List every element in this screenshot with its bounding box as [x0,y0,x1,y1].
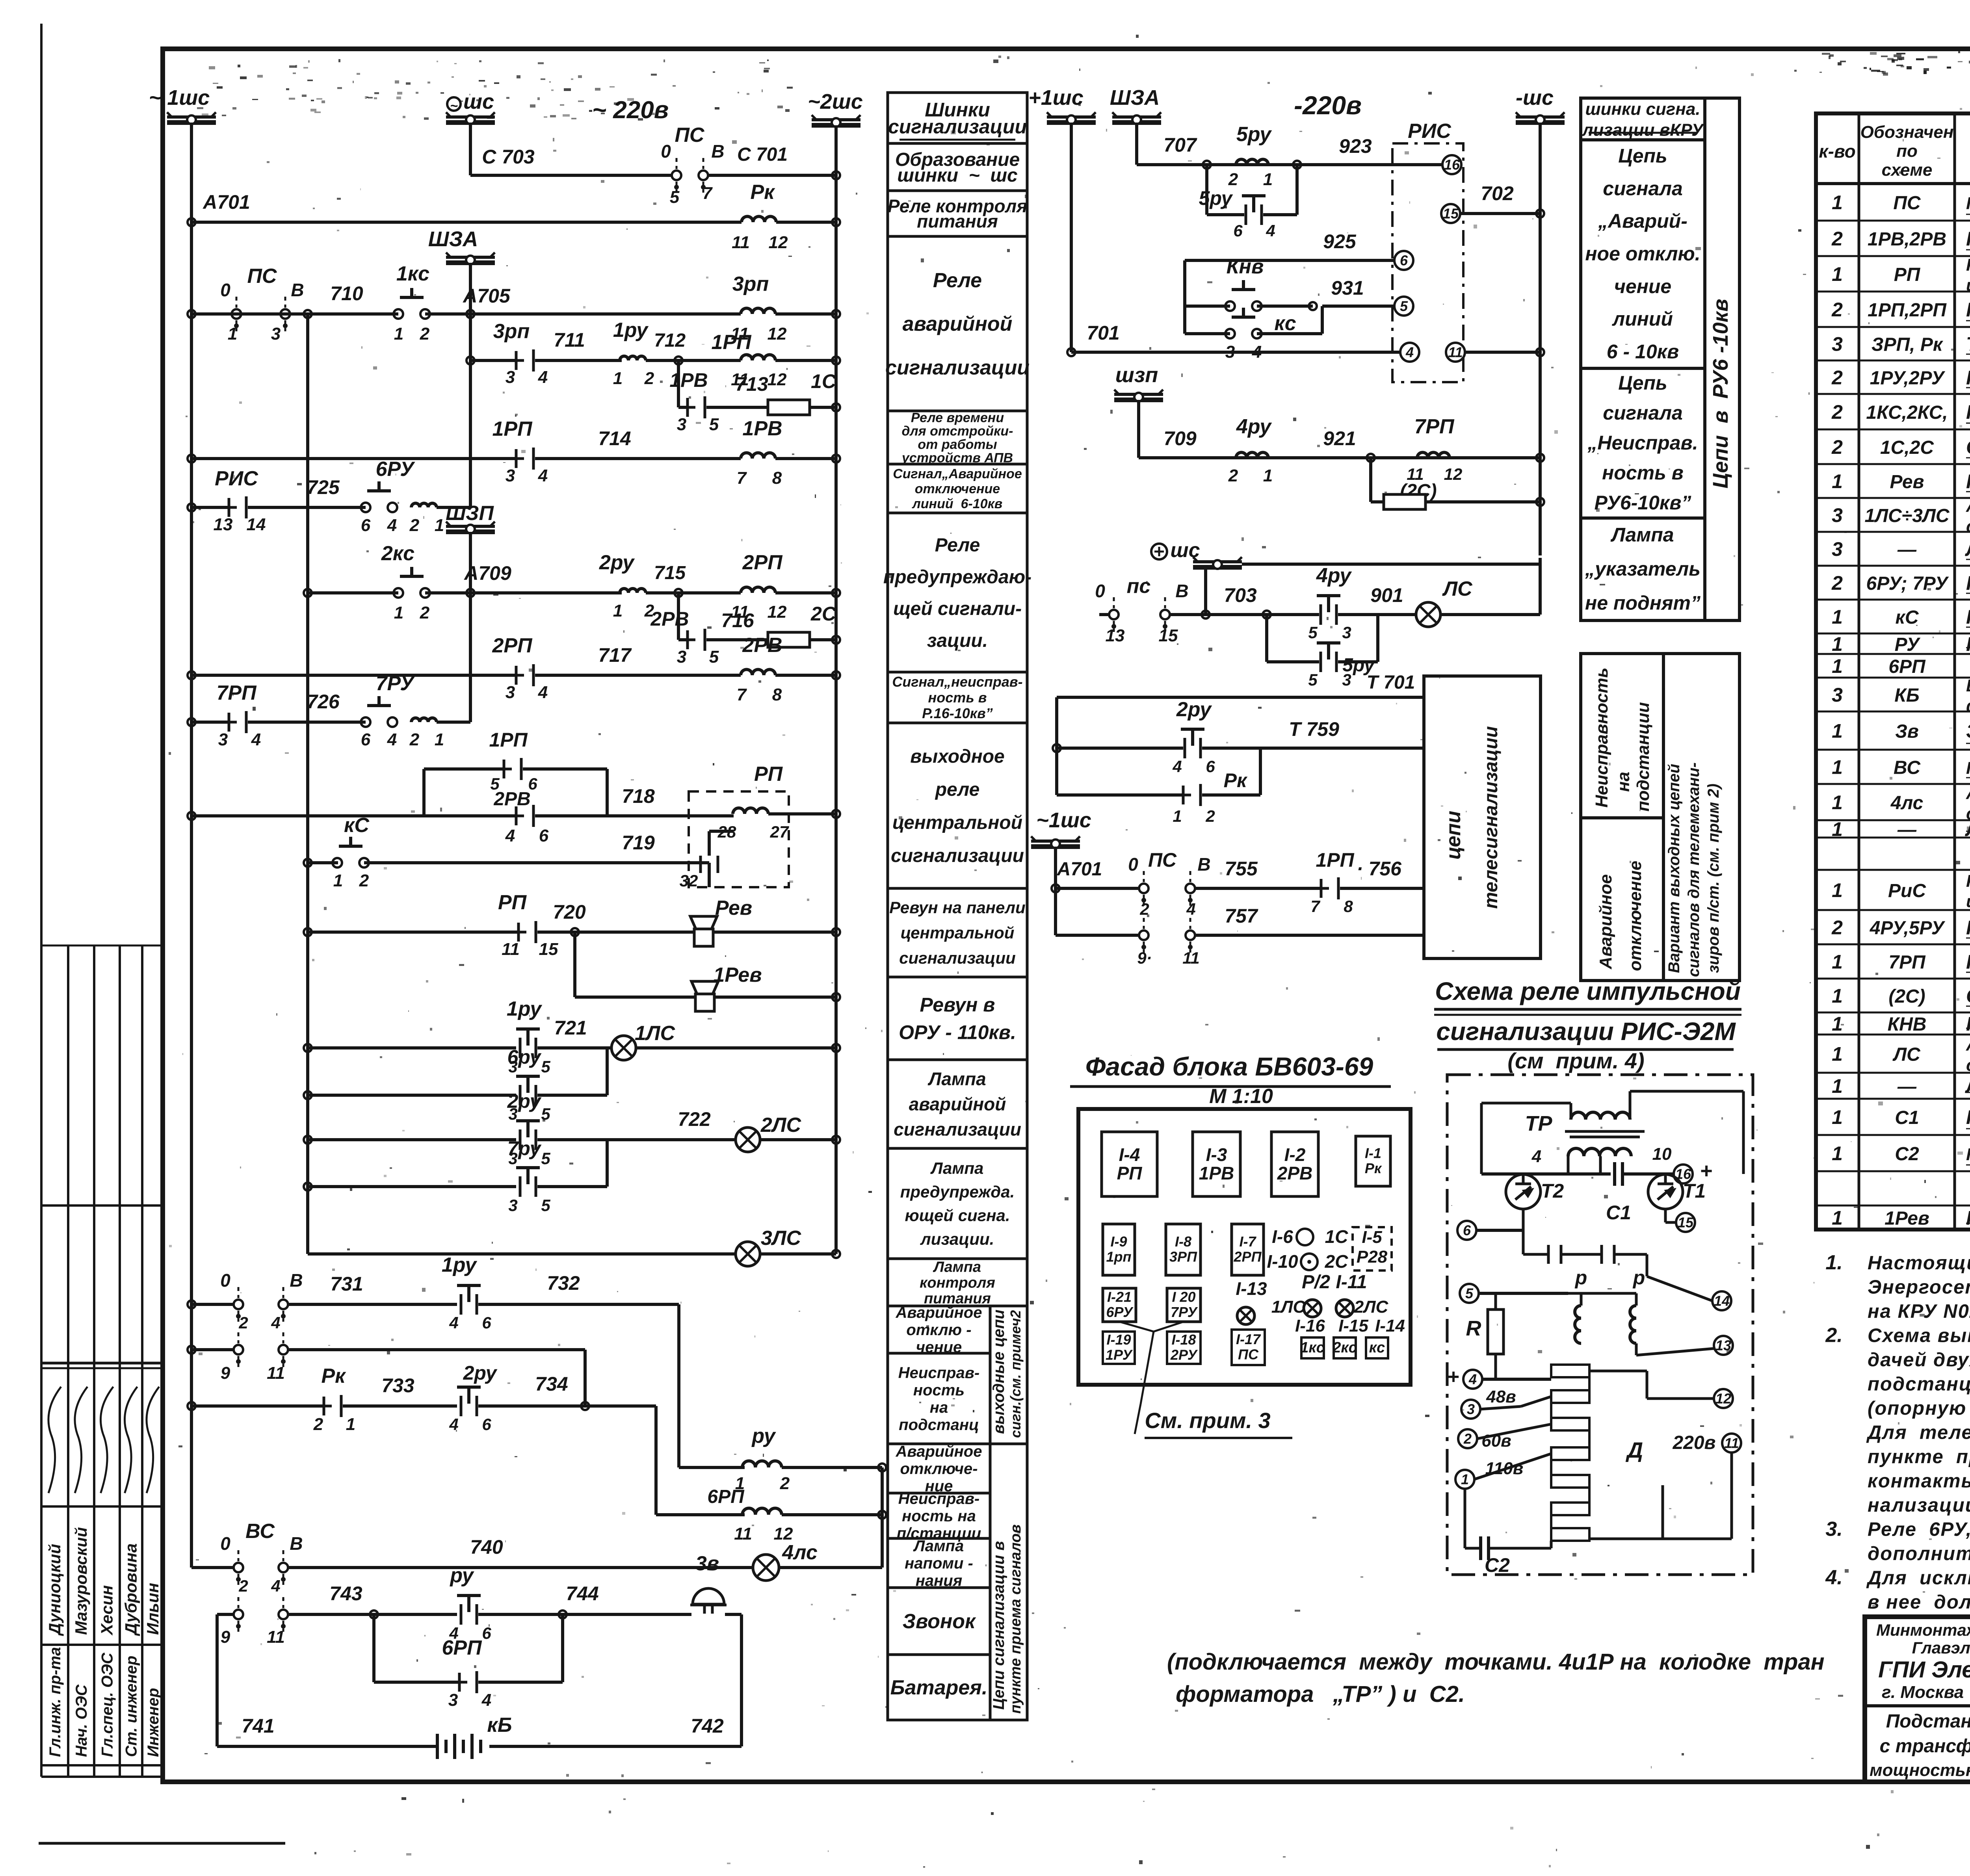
relay РП dashed box [689,791,789,887]
wire A701 [188,218,195,226]
switch ВС contacts row 9-11 [217,1613,234,1616]
svg-text:линий 6-10кв: линий 6-10кв [912,496,1003,511]
bus ~шс with circle [446,120,495,125]
svg-text:925: 925 [1323,230,1357,253]
svg-text:Для телемеханизированных под: Для телемеханизированных подстанций шкаф… [1866,1422,1970,1443]
signature scrawl [147,1387,159,1493]
svg-text:732: 732 [547,1272,580,1294]
svg-text:телесигнализации: телесигнализации [1481,726,1502,909]
svg-text:6: 6 [1463,1222,1471,1239]
svg-text:С 701: С 701 [737,144,788,165]
table row 1ЛС÷3ЛС 1264 [1816,531,1970,533]
svg-text:7РУ: 7РУ [1171,1304,1198,1320]
panel unit I-20 [1167,1288,1201,1322]
svg-text:ПС: ПС [1893,193,1921,214]
contact РИС 13-14 [228,498,230,517]
svg-text:1: 1 [1832,606,1843,628]
svg-text:0: 0 [220,280,230,300]
svg-text:Ст. инженер: Ст. инженер [123,1656,140,1757]
switch ПС contacts row 9-11 [188,1346,195,1354]
svg-text:1: 1 [1832,191,1843,214]
svg-text:Схема выполнена для нетелемеха: Схема выполнена для нетелемеханизированн… [1868,1325,1970,1347]
panel unit I-18 [1167,1332,1201,1364]
svg-text:(опорную подстанцию).: (опорную подстанцию). [1868,1398,1970,1419]
svg-text:2ру: 2ру [599,551,635,574]
svg-text:(подключается между точками.: (подключается между точками. 4и1Р на кол… [1167,1649,1825,1675]
svg-text:1: 1 [1832,1207,1843,1229]
svg-text:Неисправ-: Неисправ- [898,1490,979,1508]
svg-text:1рп: 1рп [1106,1249,1131,1265]
table row 4лс 1990 [1816,819,1970,821]
table row 6РП 1660 [1816,677,1970,679]
svg-text:Неисправ-: Неисправ- [898,1364,979,1382]
svg-text:901: 901 [1370,584,1403,606]
svg-text:Аварийное: Аварийное [896,1304,982,1321]
svg-text:Для исключения неправильной р: Для исключения неправильной работы РИС-Э… [1866,1568,1970,1589]
svg-text:форматора „ТР” ) и С2.: форматора „ТР” ) и С2. [1176,1681,1465,1707]
right description column [1581,98,1705,140]
rotated box Аварийное отключение [1581,818,1663,981]
svg-text:Реле указательное: Реле указательное [1966,367,1970,389]
terminal 5 [1394,297,1413,316]
wire 925 [1185,259,1394,262]
svg-text:703: 703 [1224,584,1257,606]
svg-text:2: 2 [420,324,430,344]
svg-text:лизации вКРУ: лизации вКРУ [1582,121,1704,140]
svg-text:1: 1 [1173,807,1182,825]
svg-text:2: 2 [1831,299,1843,321]
svg-text:зации.: зации. [927,630,988,651]
svg-text:В: В [1197,854,1210,875]
svg-text:27: 27 [770,823,789,841]
contact 2РП 3-4 [515,666,518,685]
svg-text:пункте приема сигналов. не: пункте приема сигналов. не устанавливает… [1868,1446,1970,1467]
svg-text:716: 716 [721,609,755,632]
svg-text:на: на [930,1399,948,1416]
svg-text:757: 757 [1225,905,1258,927]
svg-text:Реле указательное: Реле указательное [1966,572,1970,594]
svg-text:В: В [1175,581,1188,601]
svg-text:6РП: 6РП [707,1486,745,1507]
svg-text:РУ6-10кв”: РУ6-10кв” [1595,492,1691,514]
svg-text:1: 1 [394,324,403,344]
svg-text:5ру: 5ру [1236,123,1272,146]
svg-text:1: 1 [394,603,403,622]
svg-text:6ру: 6ру [507,1046,542,1068]
svg-text:Кнв: Кнв [1227,255,1264,278]
svg-text:напоми -: напоми - [905,1555,973,1572]
terminal 6 [1394,251,1413,270]
svg-text:кс: кс [1369,1339,1385,1356]
svg-text:с трансформаторами: с трансформаторами [1880,1736,1970,1757]
table row ВС 1903 [1816,783,1970,785]
svg-text:1: 1 [1263,466,1273,485]
bus +шс [1151,544,1167,559]
svg-text:4: 4 [481,1690,491,1710]
wire rung 713 [677,360,680,407]
svg-text:1: 1 [346,1415,355,1434]
coil 5РУ [1236,159,1268,165]
svg-text:12: 12 [769,233,788,252]
svg-text:1: 1 [613,601,623,620]
svg-text:1ЛС: 1ЛС [635,1022,676,1045]
wire right drop [881,1467,884,1568]
svg-text:отключе-: отключе- [900,1460,978,1478]
svg-text:1Рев: 1Рев [713,964,762,986]
svg-text:5: 5 [1308,623,1318,642]
svg-text:—: — [1897,1076,1917,1097]
svg-text:ЗРП, Рк: ЗРП, Рк [1871,334,1944,355]
left description column [888,93,1027,143]
contact 2РУ 4-6 [457,1386,481,1389]
svg-text:кБ: кБ [487,1714,512,1737]
svg-text:ТР: ТР [1525,1112,1552,1135]
svg-text:4: 4 [271,1577,280,1595]
svg-text:2: 2 [1831,228,1843,250]
wire rung 722 [304,1136,312,1144]
wire rung 1Рев [573,932,576,997]
svg-text:3: 3 [1832,504,1843,526]
table row РП 650 [1816,291,1970,293]
svg-text:С1: С1 [1895,1107,1919,1128]
svg-text:1: 1 [1832,263,1843,285]
table row — 2082 [1816,837,1970,839]
svg-text:Главэлектромонтаж: Главэлектромонтаж [1912,1638,1970,1657]
svg-text:подстанц: подстанц [899,1416,979,1434]
coil 7РП [1417,452,1450,458]
table row 1РП,2РП 740 [1816,326,1970,328]
horn Рев [690,916,717,929]
bus ~1шс [167,120,216,125]
svg-text:2: 2 [238,1313,248,1332]
wire to coil ЗРП [470,312,741,316]
svg-text:0: 0 [661,141,671,162]
svg-text:I-4: I-4 [1119,1144,1140,1165]
pointer см.прим 3 [1119,1322,1184,1332]
table row empty 2973 [1816,1205,1970,1207]
svg-text:Сигнал„Аварийное: Сигнал„Аварийное [893,466,1022,481]
svg-text:для отстройки-: для отстройки- [902,423,1013,438]
svg-text:ПС: ПС [1148,849,1177,871]
svg-text:—: — [1897,819,1917,840]
svg-text:Батарея.: Батарея. [890,1676,988,1699]
svg-text:ЛС: ЛС [1892,1044,1921,1065]
svg-text:1РП: 1РП [711,331,752,354]
wire 701 [1067,348,1075,356]
wire rung 711/712 [466,357,474,364]
svg-text:сигнализации: сигнализации [891,845,1024,866]
table row КБ 1720 [1816,711,1970,713]
svg-text:ность на: ность на [902,1508,976,1525]
svg-text:I 20: I 20 [1172,1289,1195,1305]
svg-text:3: 3 [1342,623,1351,642]
svg-text:5: 5 [541,1196,550,1215]
svg-text:(см прим. 4): (см прим. 4) [1507,1048,1644,1073]
svg-text:2кс: 2кс [381,542,414,565]
svg-text:Звонок: Звонок [903,1610,976,1633]
svg-text:ность: ность [913,1382,965,1399]
svg-text:3: 3 [506,368,515,387]
svg-text:шзп: шзп [1115,363,1158,387]
terminal 15 rhs [1664,1209,1667,1222]
coil РП [733,808,768,814]
svg-text:2: 2 [1831,572,1843,594]
table row — 2723 [1816,1098,1970,1100]
svg-text:6: 6 [1400,253,1408,269]
svg-text:Нач. ОЭС: Нач. ОЭС [73,1684,90,1757]
coil 2РУ [620,589,646,593]
svg-text:подстанции”) дежурному на дом: подстанции”) дежурному на дом или на дис… [1868,1374,1970,1395]
svg-text:709: 709 [1163,427,1197,449]
contact 7РП 3-4 [228,713,230,732]
lamp 1ЛС [611,1036,636,1060]
svg-text:2: 2 [313,1415,323,1434]
bell Зв [693,1588,724,1604]
svg-text:6РУ: 6РУ [376,458,416,481]
terminal 11 [1446,343,1465,362]
svg-text:2С: 2С [810,603,836,625]
svg-text:6РУ: 6РУ [1106,1304,1134,1320]
svg-text:Реле: Реле [933,269,982,292]
wire drop 734 [584,1350,587,1406]
svg-text:4: 4 [1172,757,1182,776]
svg-text:Лампа: Лампа [927,1069,986,1089]
lamp 4ЛС [753,1555,779,1581]
svg-text:742: 742 [691,1715,724,1737]
relay coil ЗРП [741,308,775,314]
svg-text:2РП: 2РП [492,634,533,657]
svg-text:I-10: I-10 [1267,1251,1298,1272]
contact РУ 4-6 [457,1594,481,1597]
svg-text:12: 12 [774,1524,793,1544]
coil 2РП [741,587,775,593]
svg-text:8: 8 [1344,897,1353,916]
svg-text:8: 8 [772,685,782,704]
svg-text:741: 741 [242,1715,274,1737]
svg-text:Рев: Рев [1890,472,1924,492]
svg-text:719: 719 [622,832,655,854]
svg-text:Реле времени.: Реле времени. [1966,228,1970,250]
table row 1РУ,2РУ 915 [1816,393,1970,395]
svg-text:Р/2: Р/2 [1302,1272,1330,1293]
svg-text:Ильин: Ильин [143,1583,162,1635]
svg-text:Энергосетьпроект NN 1892тм-Т4: Энергосетьпроект NN 1892тм-Т4-15 и 1892т… [1868,1277,1970,1298]
svg-text:1РВ,2РВ: 1РВ,2РВ [1868,229,1946,250]
svg-text:Арматура сигнальной лампы: Арматура сигнальной лампы [1966,784,1970,803]
svg-text:центральной: центральной [901,923,1015,942]
svg-text:ШЗА: ШЗА [428,227,478,251]
panel unit I-21 [1103,1288,1136,1322]
table row 1КС,2КС, 1000 [1816,429,1970,431]
svg-text:Минмонтажспецстрой СССР: Минмонтажспецстрой СССР [1876,1621,1970,1639]
panel box [1078,1109,1411,1385]
svg-text:по: по [1896,141,1918,161]
svg-text:5ру: 5ру [1199,187,1233,209]
svg-text:5: 5 [709,647,719,667]
svg-text:контакты реле и переключател: контакты реле и переключателя ПС. исполь… [1868,1471,1970,1492]
svg-text:3: 3 [677,415,686,434]
svg-text:I-3: I-3 [1206,1144,1227,1165]
svg-text:· 756: · 756 [1357,858,1402,880]
svg-text:1кс: 1кс [1300,1339,1325,1356]
svg-text:сигналов для телемехани-: сигналов для телемехани- [1685,762,1702,977]
terminal 13 rhs [1714,1336,1733,1355]
svg-text:2РВ: 2РВ [650,608,689,630]
table row С2 2881 [1816,1170,1970,1172]
svg-text:4: 4 [1266,221,1275,240]
svg-text:Кнопка управления: Кнопка управления [1966,401,1970,423]
svg-text:1: 1 [1832,633,1843,655]
svg-text:9: 9 [221,1363,230,1383]
svg-text:на: на [1614,772,1633,792]
svg-text:нализации .: нализации . [1868,1495,1970,1516]
table row 6РУ; 7РУ 1436 [1816,599,1970,601]
svg-text:I-7: I-7 [1239,1233,1256,1250]
wire top loop [1570,1103,1572,1120]
svg-text:РП: РП [498,891,527,914]
svg-text:11: 11 [502,940,520,959]
terminal 16 [1442,155,1461,174]
wire bus-шс stem [469,123,472,175]
table row 4РУ,5РУ 2310 [1816,944,1970,945]
svg-text:6: 6 [482,1313,491,1332]
svg-text:714: 714 [598,427,631,449]
capacitor С1 [1613,1162,1616,1186]
svg-text:Т 759: Т 759 [1289,718,1339,740]
svg-text:3: 3 [1467,1401,1475,1417]
svg-text:2кс: 2кс [1332,1339,1357,1356]
svg-text:743: 743 [329,1583,362,1605]
svg-text:~1шс: ~1шс [1036,808,1091,832]
svg-text:Реле промежуточное: Реле промежуточное [1966,299,1970,321]
svg-text:4РУ,5РУ: 4РУ,5РУ [1870,918,1946,939]
coil Р right [1630,1306,1636,1343]
svg-text:~2шс: ~2шс [808,90,863,113]
svg-text:1РП: 1РП [1316,849,1354,871]
svg-text:4: 4 [538,683,548,702]
svg-text:чение: чение [1614,275,1672,297]
svg-text:I-14: I-14 [1375,1316,1405,1335]
svg-text:ность в: ность в [928,689,987,706]
contact 1РП 3-4 [515,449,518,468]
svg-text:Переключатель малогабаритный: Переключатель малогабаритный [1966,194,1970,213]
svg-text:6РП: 6РП [1888,656,1926,677]
svg-text:733: 733 [381,1374,414,1397]
switch ПС contacts 731 [188,1300,195,1308]
svg-text:Ревун на панели: Ревун на панели [889,898,1025,917]
svg-text:„указатель: „указатель [1585,558,1701,580]
svg-text:ВС: ВС [1894,758,1921,778]
panel button КС [1366,1337,1388,1358]
svg-text:I-6: I-6 [1272,1226,1293,1247]
svg-text:1С,2С: 1С,2С [1880,437,1934,458]
svg-text:1РУ,2РУ: 1РУ,2РУ [1870,368,1946,389]
resistor 2С [768,632,810,647]
svg-text:3: 3 [271,324,281,344]
svg-text:Сопротивление: Сопротивление [1966,985,1970,1007]
svg-text:2: 2 [1205,807,1215,825]
bridge 2РУ 4-6 [1055,697,1058,795]
svg-text:1: 1 [1832,879,1843,901]
wire rung A709 / 715 [306,314,309,1254]
svg-text:Цепи в РУ6 -10кв: Цепи в РУ6 -10кв [1709,299,1732,489]
contact РП 11-15 [517,923,520,942]
terminal 5 lhs [1460,1284,1479,1303]
svg-text:4лс: 4лс [782,1541,818,1564]
svg-text:В: В [290,1533,303,1554]
table row empty 2126 [1816,869,1970,871]
svg-text:Реле указательное: Реле указательное [1966,633,1970,655]
svg-text:зиров п/ст. (см. прим 2): зиров п/ст. (см. прим 2) [1705,784,1722,973]
svg-text:3: 3 [1832,538,1843,560]
svg-text:Конденсатор: Конденсатор [1966,1106,1970,1128]
coil РУ [679,1466,745,1469]
svg-text:1: 1 [1832,1106,1843,1128]
table row ЛС 2626 [1816,1072,1970,1074]
svg-text:7: 7 [1310,897,1320,916]
svg-text:2: 2 [1831,401,1843,423]
svg-text:Батарея для карманного: Батарея для карманного [1966,676,1970,695]
contact 4РУ 5-3 [1317,594,1340,597]
svg-text:ру: ру [751,1425,776,1447]
table row 1С,2С 1090 [1816,463,1970,465]
svg-text:4.: 4. [1825,1566,1842,1589]
svg-text:731: 731 [330,1273,363,1295]
svg-text:15: 15 [1159,626,1178,645]
svg-text:кС: кС [1896,607,1919,628]
svg-text:12: 12 [768,370,787,389]
rotated cell цепи сигнализации [990,1444,1027,1720]
svg-text:Аварийное: Аварийное [896,1443,982,1460]
svg-text:5: 5 [670,188,680,207]
svg-text:Инженер: Инженер [145,1688,162,1757]
svg-text:контроля: контроля [920,1274,995,1291]
svg-text:Дуниоцкий: Дуниоцкий [45,1544,64,1636]
transformer secondary [1568,1148,1631,1156]
rotated cell выходные цепи [990,1306,1027,1444]
signature scrawl [125,1387,137,1493]
svg-text:734: 734 [535,1373,568,1395]
panel unit I-2 [1271,1132,1318,1196]
contact 1РУ 4-6 [457,1284,481,1287]
svg-text:740: 740 [470,1536,503,1558]
svg-text:КБ: КБ [1894,685,1920,706]
svg-text:4ру: 4ру [1236,415,1272,438]
table row КНВ 2570 [1816,1034,1970,1036]
svg-text:Мазуровский: Мазуровский [72,1527,90,1635]
svg-text:аварийной: аварийной [903,313,1013,336]
panel unit I-9 [1103,1224,1135,1275]
svg-text:9·: 9· [1137,949,1152,967]
svg-text:0: 0 [220,1270,230,1291]
bridge contact 6РП 3-4 [372,1614,375,1682]
coil 4РУ [1236,452,1268,458]
svg-text:Рев: Рев [715,897,752,919]
svg-text:3: 3 [448,1690,458,1710]
coil 6РП [656,1513,745,1516]
svg-text:1кс: 1кс [396,262,429,285]
svg-text:Реле: Реле [935,535,980,556]
svg-text:6: 6 [361,730,371,749]
svg-text:+: + [1447,1365,1459,1388]
svg-text:0: 0 [1095,581,1105,601]
svg-text:ГПИ Электропроект: ГПИ Электропроект [1878,1657,1970,1683]
panel unit I-3 [1193,1132,1240,1196]
svg-text:5: 5 [541,1149,550,1168]
svg-text:15: 15 [539,940,558,959]
wire rung 717 [188,671,195,679]
lamp 3ЛС [736,1242,760,1266]
